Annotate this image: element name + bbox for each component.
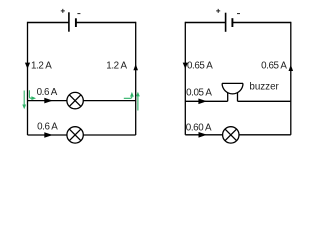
wire: circuit 1 left side <box>27 22 29 135</box>
wire: circuit 2 bottom right segment <box>239 134 291 136</box>
arrow: 0.65 A down, circuit 2 left wire <box>183 63 188 69</box>
lamp L3 (circuit 2 bottom branch) <box>223 127 239 143</box>
green arrow: current turning into middle branch at left junction <box>29 90 36 100</box>
arrow: 0.60 A right, circuit 2 bottom branch <box>199 132 208 138</box>
svg-text:1.2 A: 1.2 A <box>106 61 127 72</box>
arrow: 1.2 A up, circuit 1 right wire <box>133 64 138 70</box>
wire: circuit 2 bottom left segment <box>185 134 222 136</box>
wire: circuit 1 middle branch left segment <box>28 100 67 102</box>
arrow: 0.6 A right, circuit 1 middle branch <box>44 98 53 104</box>
arrow: 1.2 A down, circuit 1 left wire <box>25 63 30 69</box>
svg-text:0.65 A: 0.65 A <box>187 61 213 72</box>
wire: circuit 2 middle branch left segment <box>185 100 227 102</box>
wire: circuit 1 bottom right segment <box>83 134 135 136</box>
wire: circuit 2 left side <box>184 22 186 135</box>
wire: circuit 1 middle branch right segment <box>83 100 135 102</box>
battery B1 <box>61 9 81 32</box>
wire: circuit 1 top-left segment to battery <box>28 22 69 24</box>
arrow: 0.05 A right, circuit 2 middle branch <box>198 99 207 105</box>
arrow: 0.6 A right, circuit 1 bottom branch <box>44 132 53 138</box>
svg-text:0.05 A: 0.05 A <box>186 87 212 98</box>
svg-text:0.60 A: 0.60 A <box>186 123 212 134</box>
lamp L2 (bottom branch) <box>67 127 83 143</box>
buzzer BZ1 <box>222 83 243 101</box>
svg-text:0.6 A: 0.6 A <box>37 87 58 98</box>
wire: circuit 1 right side <box>135 22 137 135</box>
svg-text:1.2 A: 1.2 A <box>31 61 52 72</box>
svg-text:0.6 A: 0.6 A <box>37 121 58 132</box>
wire: circuit 1 bottom left segment <box>28 134 67 136</box>
svg-text:buzzer: buzzer <box>249 81 279 92</box>
wire: circuit 1 top-right segment from battery <box>76 22 136 24</box>
wire: circuit 2 top-left segment to battery <box>185 22 225 24</box>
wire: circuit 2 top-right segment from battery <box>232 22 290 24</box>
green arrow: current up, right of circuit 1 right wire <box>136 92 140 111</box>
arrow: 0.65 A up, circuit 2 right wire <box>289 65 294 71</box>
green arrow: current turning up at right junction of middle branch <box>124 92 134 98</box>
lamp L1 (middle branch) <box>67 92 83 108</box>
wire: circuit 2 middle branch right segment <box>238 100 291 102</box>
svg-text:0.65 A: 0.65 A <box>261 61 287 72</box>
battery B2 <box>216 9 240 32</box>
green arrow: current down past junction, left of circuit 1 left wire <box>22 91 26 110</box>
wire: circuit 2 right side <box>290 22 292 135</box>
